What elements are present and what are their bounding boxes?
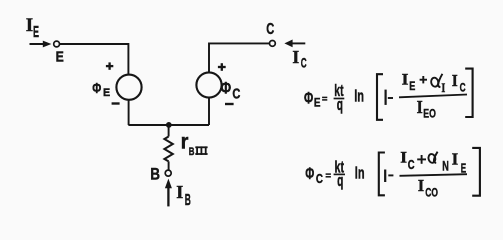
svg-text:N: N <box>442 159 449 174</box>
current arrow I_C <box>284 40 305 48</box>
svg-text:B: B <box>189 146 195 158</box>
equation PhiE kt/q fraction bar <box>334 98 345 100</box>
- polarity PhiE <box>112 102 120 104</box>
svg-text:C: C <box>408 158 415 172</box>
equation PhiE numerator I_E <box>402 72 416 93</box>
wire collector bottom <box>208 98 210 125</box>
equation PhiC minus sign <box>388 174 393 176</box>
svg-text:E: E <box>314 96 321 110</box>
node junction <box>166 122 172 128</box>
equation PhiC main fraction bar <box>400 174 468 176</box>
svg-text:C: C <box>301 56 307 71</box>
svg-text:C: C <box>232 87 240 103</box>
svg-text:I: I <box>292 47 299 67</box>
equation PhiC left bracket <box>379 153 385 196</box>
svg-text:I: I <box>402 72 409 89</box>
equation PhiC equals sign <box>326 174 331 177</box>
svg-text:Φ: Φ <box>221 79 232 97</box>
equation PhiE digit 1 <box>385 90 387 105</box>
source PhiC <box>196 72 221 97</box>
equation PhiE alpha_I <box>430 74 445 95</box>
+ polarity PhiC <box>218 63 226 71</box>
svg-text:E: E <box>409 79 415 93</box>
wire emitter top <box>60 44 129 75</box>
svg-text:I: I <box>26 15 33 36</box>
svg-text:E: E <box>33 24 39 41</box>
svg-text:I: I <box>400 150 407 167</box>
svg-text:r: r <box>181 130 189 153</box>
+ polarity PhiE <box>106 62 113 69</box>
label r_BIII <box>181 130 208 157</box>
svg-text:I: I <box>452 71 458 90</box>
svg-text:C: C <box>316 171 323 186</box>
equation PhiC kt/q fraction bar <box>334 173 345 175</box>
wire base bus <box>128 124 209 126</box>
svg-text:E: E <box>56 50 64 66</box>
wire emitter bottom <box>128 100 130 125</box>
equation PhiE equals sign <box>322 97 327 100</box>
svg-text:Φ: Φ <box>92 81 101 97</box>
equation PhiE label <box>304 88 321 109</box>
svg-text:B: B <box>185 192 191 209</box>
equation PhiE main fraction bar <box>399 95 467 98</box>
svg-text:EO: EO <box>423 107 436 121</box>
equation PhiC alpha_N <box>428 152 449 174</box>
equation PhiE denominator I_EO <box>417 97 437 121</box>
equation PhiE right bracket <box>465 69 472 117</box>
svg-text:Φ: Φ <box>305 164 314 183</box>
equation PhiC right bracket <box>472 148 480 196</box>
equation PhiC digit 1 <box>384 170 386 183</box>
- polarity PhiC <box>225 103 234 105</box>
source PhiE <box>116 75 141 100</box>
svg-text:Φ: Φ <box>304 88 313 107</box>
equation PhiC denominator I_CO <box>418 176 438 199</box>
equation PhiC numerator plus sign <box>417 155 426 164</box>
svg-text:C: C <box>266 21 274 38</box>
equation PhiC label <box>305 164 323 186</box>
svg-text:CO: CO <box>425 185 438 199</box>
current arrow I_E <box>30 41 52 48</box>
terminal B <box>165 170 171 176</box>
equation PhiC numerator I_E <box>452 150 467 176</box>
svg-text:ln: ln <box>354 86 364 105</box>
svg-text:I: I <box>441 80 445 95</box>
wire resistor to B <box>168 161 170 170</box>
label Phi_C <box>221 79 241 102</box>
svg-text:q: q <box>337 172 343 190</box>
svg-text:E: E <box>103 87 110 99</box>
label I_E <box>26 15 39 41</box>
terminal E <box>54 41 60 47</box>
label Phi_E <box>92 81 110 99</box>
wire junction to resistor <box>168 125 170 137</box>
equation PhiE left bracket <box>377 74 383 120</box>
svg-text:I: I <box>176 182 183 202</box>
resistor rBIII <box>164 137 172 162</box>
svg-text:ln: ln <box>355 164 365 183</box>
equation PhiE numerator plus sign <box>420 76 427 83</box>
current arrow I_B <box>165 179 172 207</box>
equation PhiE numerator I_C <box>452 71 466 94</box>
svg-text:I: I <box>418 176 425 195</box>
svg-text:E: E <box>461 161 467 176</box>
svg-text:B: B <box>150 165 160 184</box>
svg-text:I: I <box>417 97 423 117</box>
svg-text:q: q <box>337 96 343 114</box>
label I_B <box>176 182 191 209</box>
wire collector top <box>209 43 270 72</box>
label I_C <box>292 47 306 71</box>
svg-text:I: I <box>452 150 459 169</box>
svg-text:C: C <box>460 80 466 94</box>
equation PhiE minus sign <box>388 97 393 99</box>
terminal C <box>270 41 276 47</box>
equation PhiC numerator I_C <box>400 150 414 172</box>
